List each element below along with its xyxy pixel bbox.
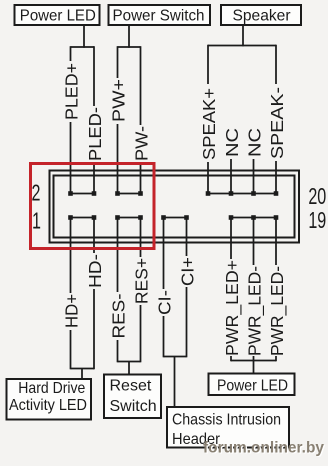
svg-text:PWR_LED-: PWR_LED- bbox=[267, 266, 288, 356]
svg-text:HD-: HD- bbox=[85, 254, 105, 288]
svg-text:HD+: HD+ bbox=[62, 294, 82, 328]
svg-text:Activity LED: Activity LED bbox=[9, 397, 87, 414]
svg-text:Chassis Intrusion: Chassis Intrusion bbox=[172, 411, 281, 428]
svg-text:RES+: RES+ bbox=[132, 258, 152, 304]
svg-text:PLED-: PLED- bbox=[85, 107, 105, 161]
svg-text:PWR_LED+: PWR_LED+ bbox=[222, 260, 243, 356]
svg-text:CI-: CI- bbox=[155, 290, 175, 315]
svg-text:forum.onliner.by: forum.onliner.by bbox=[203, 440, 324, 457]
svg-text:Switch: Switch bbox=[110, 398, 157, 415]
svg-text:SPEAK+: SPEAK+ bbox=[199, 88, 219, 160]
svg-text:Power LED: Power LED bbox=[20, 7, 96, 24]
svg-text:19: 19 bbox=[308, 208, 326, 233]
svg-text:Hard Drive: Hard Drive bbox=[18, 380, 85, 397]
svg-text:PLED+: PLED+ bbox=[62, 63, 82, 120]
svg-text:PW-: PW- bbox=[132, 126, 152, 161]
svg-text:CI+: CI+ bbox=[178, 257, 198, 286]
svg-text:Power LED: Power LED bbox=[217, 377, 288, 394]
svg-text:NC: NC bbox=[222, 128, 242, 157]
svg-text:PWR_LED-: PWR_LED- bbox=[245, 266, 266, 356]
svg-text:NC: NC bbox=[245, 128, 265, 157]
svg-text:SPEAK-: SPEAK- bbox=[267, 87, 287, 159]
svg-text:PW+: PW+ bbox=[109, 79, 129, 122]
svg-text:RES-: RES- bbox=[109, 293, 129, 338]
svg-text:Reset: Reset bbox=[110, 378, 152, 395]
svg-text:2: 2 bbox=[32, 181, 41, 206]
svg-text:Power Switch: Power Switch bbox=[113, 7, 205, 24]
svg-text:1: 1 bbox=[32, 209, 41, 234]
svg-text:20: 20 bbox=[308, 184, 326, 209]
svg-text:Speaker: Speaker bbox=[233, 7, 292, 24]
